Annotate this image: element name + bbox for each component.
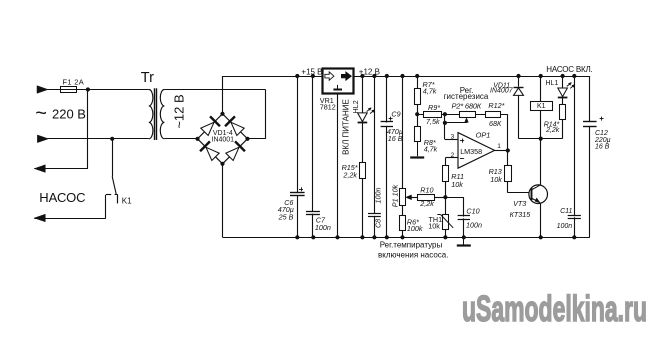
svg-text:16 В: 16 В <box>595 144 610 151</box>
svg-text:HL1: HL1 <box>546 80 559 87</box>
svg-text:+12 В: +12 В <box>359 68 380 77</box>
svg-text:10k: 10k <box>490 175 502 184</box>
svg-text:K1: K1 <box>537 103 546 110</box>
svg-text:P2* 680К: P2* 680К <box>452 102 482 111</box>
svg-text:100n: 100n <box>315 223 331 232</box>
svg-text:VT3: VT3 <box>513 199 526 208</box>
svg-text:C8: C8 <box>374 219 383 228</box>
svg-text:10k: 10k <box>428 222 440 231</box>
svg-text:Tr: Tr <box>141 70 154 86</box>
svg-text:IN4001: IN4001 <box>212 137 235 144</box>
svg-text:ВКЛ ПИТАНИЕ: ВКЛ ПИТАНИЕ <box>342 99 351 155</box>
svg-text:4,7k: 4,7k <box>424 144 438 153</box>
svg-text:C11: C11 <box>560 208 572 215</box>
svg-text:100n: 100n <box>557 223 573 230</box>
svg-text:220 В: 220 В <box>52 107 86 122</box>
svg-text:2,2k: 2,2k <box>545 127 560 134</box>
svg-text:Рег.темпиратуры: Рег.темпиратуры <box>380 240 443 249</box>
svg-text:C9: C9 <box>391 109 400 118</box>
svg-text:100n: 100n <box>374 188 383 204</box>
svg-text:68К: 68К <box>489 119 502 128</box>
svg-text:R9*: R9* <box>428 103 440 112</box>
svg-text:3: 3 <box>451 133 455 140</box>
svg-text:R12*: R12* <box>488 101 504 110</box>
svg-text:НАСОС: НАСОС <box>39 190 85 205</box>
svg-text:НАСОС ВКЛ.: НАСОС ВКЛ. <box>546 65 592 74</box>
svg-text:7,5k: 7,5k <box>426 117 440 126</box>
svg-text:включения насоса.: включения насоса. <box>378 250 448 259</box>
svg-text:uSamodelkina.ru: uSamodelkina.ru <box>462 288 647 329</box>
svg-text:~: ~ <box>35 103 47 125</box>
svg-text:R10: R10 <box>420 185 433 194</box>
svg-text:HL2: HL2 <box>351 100 360 113</box>
svg-text:25 В: 25 В <box>278 212 294 221</box>
svg-text:C10: C10 <box>466 207 479 216</box>
svg-text:1: 1 <box>497 143 501 150</box>
svg-text:7812: 7812 <box>320 102 336 111</box>
svg-text:2,2k: 2,2k <box>342 171 357 180</box>
svg-text:4,7k: 4,7k <box>423 87 437 96</box>
svg-text:~12 В: ~12 В <box>172 94 187 128</box>
svg-text:OP1: OP1 <box>476 130 491 139</box>
svg-text:16 В: 16 В <box>388 134 403 143</box>
svg-text:K1: K1 <box>122 197 132 206</box>
svg-text:LM358: LM358 <box>460 147 482 156</box>
svg-text:2,2k: 2,2k <box>419 199 434 208</box>
svg-text:P1 10k: P1 10k <box>391 184 400 207</box>
svg-text:F1 2A: F1 2A <box>63 78 85 87</box>
svg-text:+15 В: +15 В <box>301 68 322 77</box>
svg-text:2: 2 <box>451 152 455 159</box>
svg-text:10k: 10k <box>451 180 463 189</box>
svg-text:100k: 100k <box>407 224 423 233</box>
svg-text:100n: 100n <box>466 221 482 230</box>
svg-text:IN4007: IN4007 <box>490 88 514 95</box>
svg-text:гистерезиса: гистерезиса <box>444 92 489 101</box>
svg-text:КТ315: КТ315 <box>510 210 532 219</box>
